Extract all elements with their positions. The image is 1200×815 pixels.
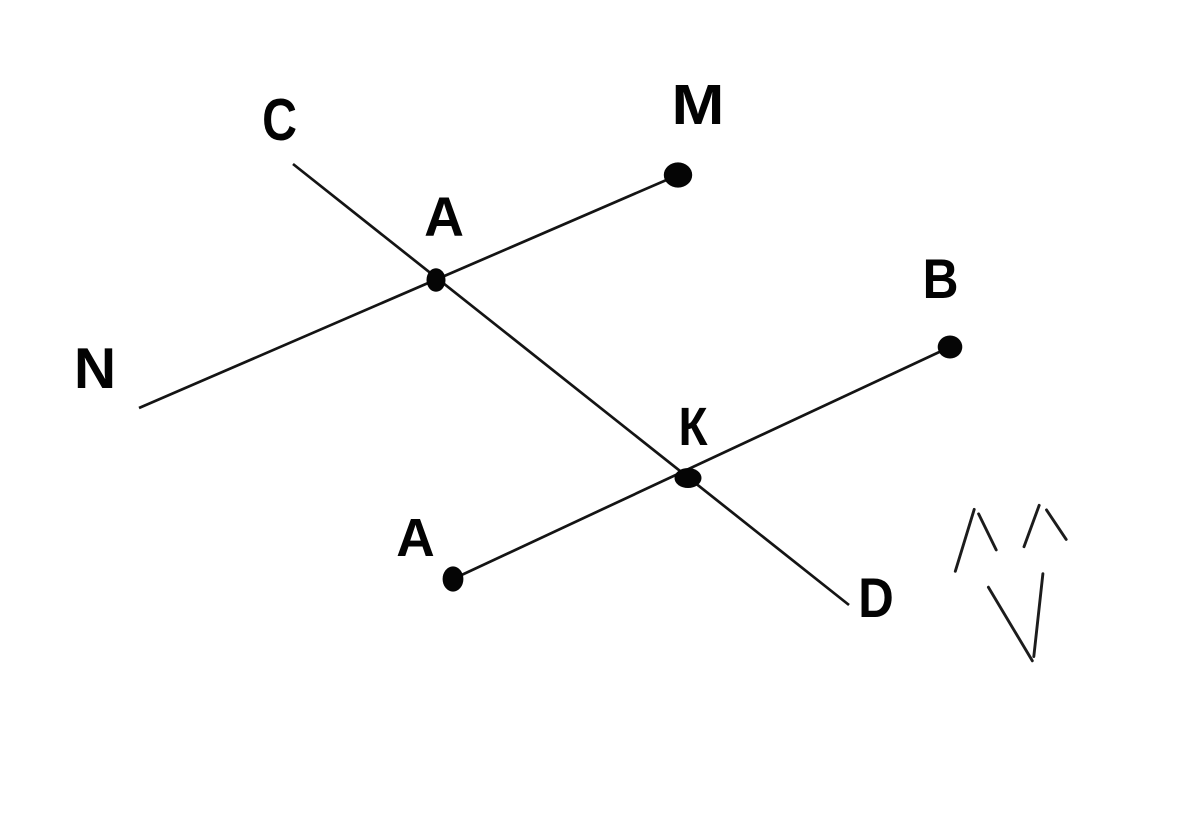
svg-text:D: D [858,568,893,629]
svg-text:К: К [678,396,708,456]
svg-text:N: N [74,338,116,401]
scribble check mark 2 right stroke [1047,510,1067,540]
node A lower (dot) [443,566,464,591]
scribble check mark 1 left stroke [955,509,974,571]
node B (dot) [938,336,963,359]
scribble V left stroke [988,587,1032,661]
scribble V right stroke [1034,574,1043,657]
scribble check mark 1 right stroke [979,514,997,550]
scribble check mark 2 left stroke [1024,505,1039,546]
svg-text:A: A [424,186,464,248]
wire: line C-D through points A and K [293,164,849,605]
node K (lower intersection dot) [675,468,702,488]
wire: ray N-M through point A [139,175,678,408]
svg-text:A: A [396,509,434,568]
svg-text:C: C [262,87,297,153]
svg-text:M: M [672,73,725,136]
node M (dot) [664,162,692,187]
node A (upper intersection dot) [427,268,446,292]
svg-text:B: B [923,249,959,311]
wire: segment A-B through point K [453,347,950,579]
